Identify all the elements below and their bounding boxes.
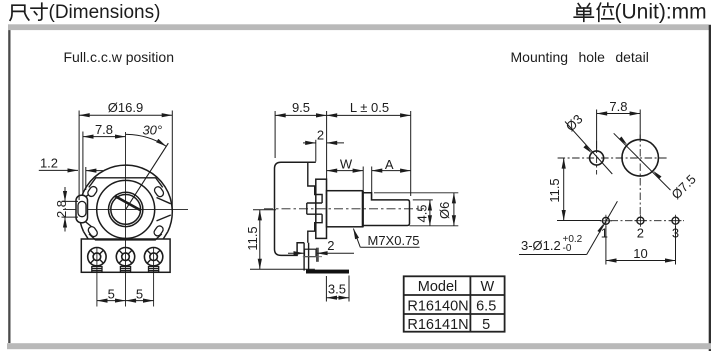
- svg-text:1.2: 1.2: [40, 156, 58, 171]
- svg-text:Ø6: Ø6: [437, 202, 452, 219]
- svg-text:M7X0.75: M7X0.75: [368, 233, 420, 248]
- svg-text:10: 10: [633, 246, 647, 261]
- svg-text:7.8: 7.8: [609, 99, 627, 114]
- svg-text:9.5: 9.5: [292, 100, 310, 115]
- svg-text:4.5: 4.5: [414, 204, 429, 222]
- svg-text:3: 3: [672, 225, 679, 240]
- svg-text:L ± 0.5: L ± 0.5: [350, 100, 389, 115]
- svg-text:2.8: 2.8: [54, 200, 69, 218]
- svg-text:11.5: 11.5: [245, 226, 260, 250]
- svg-text:A: A: [385, 157, 394, 172]
- svg-text:5: 5: [108, 287, 115, 302]
- svg-text:Mounting hole detail: Mounting hole detail: [511, 49, 649, 65]
- svg-text:11.5: 11.5: [547, 178, 562, 202]
- svg-text:2: 2: [317, 128, 324, 143]
- svg-text:3-Ø1.2: 3-Ø1.2: [521, 238, 561, 253]
- svg-text:2: 2: [327, 238, 334, 253]
- svg-text:Model: Model: [418, 279, 458, 295]
- svg-text:6.5: 6.5: [476, 298, 496, 314]
- svg-text:-0: -0: [563, 243, 572, 254]
- svg-text:W: W: [481, 279, 495, 295]
- svg-text:Full.c.c.w position: Full.c.c.w position: [64, 49, 174, 65]
- svg-text:Ø16.9: Ø16.9: [108, 100, 143, 115]
- svg-text:5: 5: [136, 287, 143, 302]
- svg-text:30°: 30°: [142, 123, 162, 138]
- svg-text:2: 2: [637, 225, 644, 240]
- svg-text:R16141N: R16141N: [407, 317, 468, 333]
- svg-text:W: W: [340, 157, 353, 172]
- svg-text:1: 1: [601, 225, 608, 240]
- svg-text:(Unit):mm: (Unit):mm: [615, 0, 707, 23]
- svg-text:3.5: 3.5: [328, 282, 346, 297]
- svg-text:(Dimensions): (Dimensions): [49, 2, 161, 23]
- svg-text:5: 5: [482, 317, 490, 333]
- svg-text:7.8: 7.8: [95, 122, 113, 137]
- svg-text:R16140N: R16140N: [407, 298, 468, 314]
